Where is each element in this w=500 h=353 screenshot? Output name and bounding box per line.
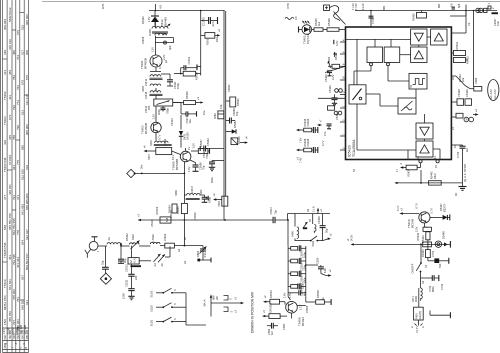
svg-text:A: A <box>421 326 425 328</box>
wire jog right rail <box>450 5 466 17</box>
note DRAWN IN POSITION MW <box>251 291 255 333</box>
resistor DR5510 <box>262 302 287 318</box>
capacitor C5064 75p <box>190 160 206 171</box>
decoupling row R5436 <box>296 118 323 143</box>
svg-text:S460: S460 <box>148 29 152 36</box>
transformer L5408 <box>148 22 174 55</box>
svg-text:T5404 548: T5404 548 <box>3 157 7 172</box>
svg-text:BZX79: BZX79 <box>443 204 447 212</box>
svg-text:L5417: L5417 <box>190 185 194 193</box>
resistor R5064 <box>168 204 178 213</box>
svg-text:4.5: 4.5 <box>294 16 298 20</box>
svg-text:A0: A0 <box>183 260 187 264</box>
svg-text:C5428: C5428 <box>457 89 461 97</box>
svg-text:0.7V: 0.7V <box>158 134 162 140</box>
svg-text:439: 439 <box>3 140 7 145</box>
svg-text:A3: A3 <box>306 208 310 212</box>
svg-text:A: A <box>410 326 414 328</box>
svg-text:523: 523 <box>20 110 24 115</box>
svg-text:960-969: 960-969 <box>3 19 7 30</box>
transistor T5403 <box>141 106 162 141</box>
transistor T5405 <box>172 148 191 170</box>
svg-text:1-LN: 1-LN <box>312 206 316 212</box>
svg-text:C2: C2 <box>467 22 471 26</box>
svg-text:C363: C363 <box>474 77 478 84</box>
svg-text:220: 220 <box>134 275 138 280</box>
resonator row C5503 <box>288 271 307 284</box>
svg-text:R5014: R5014 <box>195 72 199 80</box>
capacitor 46p drop <box>118 246 127 263</box>
svg-text:790: 790 <box>16 125 20 130</box>
transistor T5401 <box>140 54 166 71</box>
box D5084 <box>231 136 249 145</box>
svg-text:T5410: T5410 <box>3 279 7 288</box>
svg-text:348: 348 <box>3 50 7 55</box>
resonator ladder rails <box>288 246 306 297</box>
svg-text:10k3: 10k3 <box>433 173 437 179</box>
svg-text:C5012: C5012 <box>187 56 191 64</box>
resistor R5513 <box>263 290 285 305</box>
svg-text:5.7V: 5.7V <box>430 208 434 214</box>
svg-text:BF450B: BF450B <box>144 58 148 69</box>
svg-text:IC5420: IC5420 <box>348 145 352 157</box>
capacitor C5435 + ground <box>205 153 224 171</box>
phase block diagonal <box>349 85 366 104</box>
svg-text:13.2V: 13.2V <box>361 3 365 10</box>
IC internal wires <box>346 37 441 160</box>
resistor R5445 <box>421 244 434 260</box>
crystal hook <box>286 3 346 25</box>
svg-text:BC548B: BC548B <box>175 159 179 170</box>
svg-text:15p: 15p <box>219 104 223 109</box>
svg-text:C752: C752 <box>440 283 444 290</box>
varicap diode A3 <box>303 222 308 228</box>
diamond node FM <box>100 273 111 284</box>
svg-text:BA485: BA485 <box>164 17 168 26</box>
coil L5407 vertical <box>308 214 316 233</box>
amp block triangle down bottom <box>416 123 433 139</box>
svg-text:579: 579 <box>20 80 24 85</box>
varicap diodes A4 A0 <box>153 246 170 266</box>
svg-text:R5431: R5431 <box>455 41 459 49</box>
wire mute line <box>394 170 467 185</box>
wire mains stub <box>430 311 450 319</box>
svg-text:4n7: 4n7 <box>270 330 274 335</box>
svg-text:47u: 47u <box>323 131 327 136</box>
IC pin stubs left <box>335 39 346 150</box>
svg-text:515: 515 <box>20 25 24 30</box>
wire top right rail <box>354 3 497 27</box>
svg-text:544: 544 <box>20 240 24 245</box>
svg-text:C5413: C5413 <box>170 118 174 126</box>
box D363 <box>465 77 482 91</box>
svg-text:782: 782 <box>12 75 16 80</box>
svg-text:400S: 400S <box>11 328 15 334</box>
svg-text:3.3V: 3.3V <box>192 143 196 149</box>
svg-text:I-LN: I-LN <box>133 258 137 263</box>
svg-text:549 551: 549 551 <box>20 299 24 310</box>
svg-text:881: 881 <box>437 3 441 8</box>
svg-text:T5403: T5403 <box>3 116 7 125</box>
svg-text:C558: C558 <box>296 283 300 290</box>
wire supply line <box>346 234 450 245</box>
svg-text:500p: 500p <box>303 277 307 283</box>
svg-text:AA119: AA119 <box>237 136 241 144</box>
resonator row C5504 <box>288 283 307 296</box>
svg-text:5406: 5406 <box>291 231 295 237</box>
extra labels left chain <box>144 16 241 240</box>
svg-text:1V: 1V <box>187 147 191 150</box>
capacitor C559 6.8n <box>305 257 332 276</box>
svg-text:T5402: T5402 <box>3 91 7 100</box>
svg-text:791: 791 <box>12 195 16 200</box>
page scan edge left <box>0 0 2 353</box>
svg-text:D5447: D5447 <box>439 203 443 211</box>
svg-text:C5436: C5436 <box>306 118 310 126</box>
svg-text:K70: K70 <box>286 3 290 9</box>
capacitor C558 row5 <box>288 283 306 296</box>
svg-text:A4: A4 <box>153 263 157 267</box>
extra labels mid/right <box>331 3 471 172</box>
svg-text:A4: A4 <box>177 248 181 252</box>
diamond node 30n <box>127 164 185 178</box>
svg-text:U: U <box>19 347 23 349</box>
wire FM second tier <box>131 246 133 258</box>
resistor C5443 <box>423 223 431 231</box>
coil L5401 <box>107 237 130 247</box>
svg-text:560 905,906: 560 905,906 <box>25 193 29 210</box>
svg-text:S: S <box>230 311 234 313</box>
svg-text:S457: S457 <box>147 153 151 160</box>
decoupling row R5438 <box>295 138 318 163</box>
svg-text:6.7V: 6.7V <box>415 203 419 209</box>
trimmer label <box>168 45 172 50</box>
connector sockets top right <box>476 3 495 13</box>
svg-text:14.3V: 14.3V <box>350 234 354 241</box>
svg-text:C5433: C5433 <box>324 74 328 82</box>
svg-text:1500: 1500 <box>121 293 125 299</box>
resistor R5409 <box>173 91 204 105</box>
svg-text:S: S <box>173 289 177 291</box>
coil L471 <box>411 288 422 307</box>
svg-text:C5417: C5417 <box>269 206 273 214</box>
svg-text:671669: 671669 <box>8 155 12 165</box>
capacitor C753 <box>421 275 439 292</box>
svg-text:5501: 5501 <box>217 200 221 206</box>
svg-text:SK-A: SK-A <box>203 299 207 306</box>
svg-text:R5091: R5091 <box>236 98 240 106</box>
svg-text:C5438: C5438 <box>306 138 310 146</box>
svg-text:C5018: C5018 <box>150 219 154 227</box>
svg-text:R5402: R5402 <box>125 233 129 241</box>
resistor R5065 <box>176 203 187 245</box>
capacitor C5411 100p <box>161 74 180 89</box>
svg-text:DR1: DR1 <box>215 36 219 42</box>
page scan edge top <box>42 1 500 3</box>
sine ramp block <box>398 98 416 114</box>
mixer box <box>143 145 172 155</box>
svg-text:R5021: R5021 <box>206 37 210 45</box>
svg-text:17.2V: 17.2V <box>351 3 355 10</box>
svg-text:631: 631 <box>25 300 29 305</box>
fuse F410 <box>414 307 424 332</box>
resistor R5426 <box>323 18 346 32</box>
svg-text:0.2V: 0.2V <box>331 74 335 80</box>
svg-text:471: 471 <box>16 195 20 200</box>
svg-text:R5409: R5409 <box>185 91 189 99</box>
capacitor C563 <box>267 323 278 335</box>
capacitor C5434 <box>200 138 224 152</box>
amp block triangle down 1 <box>411 29 427 45</box>
svg-text:R5019: R5019 <box>169 210 173 218</box>
capacitor C5417 series <box>269 206 278 223</box>
svg-text:500S: 500S <box>15 328 19 334</box>
flip-flop block B <box>384 47 400 66</box>
svg-text:100p: 100p <box>176 83 180 89</box>
svg-text:1-54: 1-54 <box>2 329 6 335</box>
diode D431 AA119 <box>173 103 190 148</box>
svg-text:585: 585 <box>20 145 24 150</box>
wire top AM rail <box>149 4 225 11</box>
svg-text:1.5V: 1.5V <box>288 292 292 298</box>
switch SL5/1 <box>150 317 187 326</box>
bus wire +2 <box>137 213 289 221</box>
svg-text:150p: 150p <box>301 283 305 289</box>
svg-text:B: B <box>24 347 28 349</box>
svg-text:1k2: 1k2 <box>317 21 321 26</box>
svg-text:D893: D893 <box>196 250 200 257</box>
svg-text:R5440: R5440 <box>416 232 420 240</box>
svg-text:459: 459 <box>8 70 12 75</box>
svg-text:881: 881 <box>382 5 386 10</box>
svg-text:764: 764 <box>16 55 20 60</box>
svg-text:5431: 5431 <box>311 240 315 246</box>
extra table labels <box>2 39 29 345</box>
svg-text:10u: 10u <box>188 119 192 124</box>
svg-text:0.7V: 0.7V <box>158 63 162 69</box>
svg-text:F410: F410 <box>415 313 419 319</box>
svg-text:S1: S1 <box>424 264 428 268</box>
svg-text:S455: S455 <box>141 85 145 92</box>
resistor R5425 <box>312 18 323 32</box>
svg-text:5082: 5082 <box>213 113 217 119</box>
amp block triangle up bottom <box>416 141 433 157</box>
svg-text:A0: A0 <box>160 263 164 267</box>
capacitor C5088 15p <box>226 108 240 124</box>
svg-text:793 795: 793 795 <box>12 254 16 265</box>
switch SK-A <box>203 294 245 316</box>
svg-text:R5019: R5019 <box>155 206 159 214</box>
svg-text:L5411: L5411 <box>144 78 148 86</box>
svg-text:4.5: 4.5 <box>159 4 163 9</box>
svg-text:100-196: 100-196 <box>19 324 23 334</box>
svg-text:608: 608 <box>25 50 29 55</box>
flip-flop block A <box>367 47 383 66</box>
svg-text:R5445: R5445 <box>421 249 425 257</box>
svg-text:5682 B132: 5682 B132 <box>8 7 12 22</box>
svg-text:L5408: L5408 <box>141 36 145 44</box>
capacitor 32p <box>101 246 109 273</box>
svg-text:S2: S2 <box>421 280 425 284</box>
resistor R5067 collector <box>191 139 210 154</box>
coil L5417 <box>184 185 200 199</box>
resistor stack right of IC <box>451 41 469 64</box>
svg-text:AC~12V: AC~12V <box>489 89 493 99</box>
svg-text:477: 477 <box>3 195 7 200</box>
svg-text:R5437: R5437 <box>407 168 411 176</box>
IF transformer L5411 <box>144 72 163 87</box>
svg-text:C5456: C5456 <box>317 216 321 224</box>
svg-text:CQY24: CQY24 <box>306 34 310 44</box>
svg-text:300R: 300R <box>414 296 418 302</box>
svg-text:2.2V: 2.2V <box>162 54 166 60</box>
svg-text:BF494: BF494 <box>301 317 305 326</box>
svg-text:75p: 75p <box>274 210 278 215</box>
svg-text:D5432: D5432 <box>141 16 145 24</box>
connector oval AC-12V <box>488 80 499 101</box>
reference table grid lines <box>3 0 29 353</box>
svg-text:461-464: 461-464 <box>16 257 20 268</box>
resistor R5019 <box>155 206 171 223</box>
svg-text:BF450B: BF450B <box>144 123 148 134</box>
svg-text:30p: 30p <box>325 228 329 233</box>
svg-text:180p: 180p <box>208 197 212 203</box>
svg-text:DR5: DR5 <box>327 56 331 62</box>
svg-text:300p: 300p <box>157 109 161 115</box>
resistor R5508 output <box>297 290 331 306</box>
svg-text:55-96: 55-96 <box>7 327 11 334</box>
svg-text:75p: 75p <box>202 165 206 170</box>
svg-text:R5443: R5443 <box>430 171 434 179</box>
svg-text:C5429: C5429 <box>465 89 469 97</box>
svg-text:T5408 F5/8: T5408 F5/8 <box>3 242 7 258</box>
svg-text:C559: C559 <box>315 257 319 264</box>
svg-text:797: 797 <box>12 320 16 325</box>
svg-text:788: 788 <box>12 135 16 140</box>
svg-text:3.3n: 3.3n <box>203 252 207 258</box>
svg-text:1.6V: 1.6V <box>283 292 287 298</box>
svg-text:530: 530 <box>438 263 442 268</box>
svg-text:D5448: D5448 <box>442 231 446 239</box>
diode D5448 <box>442 231 448 247</box>
trimmer C5405 <box>196 246 211 263</box>
svg-text:680n: 680n <box>431 286 435 292</box>
svg-text:1.6A(T): 1.6A(T) <box>418 311 422 320</box>
svg-text:6.8n: 6.8n <box>323 267 327 273</box>
resistor chain pin6 <box>327 56 340 68</box>
svg-text:D1: D1 <box>454 192 458 196</box>
capacitor C5071 10u <box>181 103 197 124</box>
capacitor C1075 22n <box>201 11 218 27</box>
capacitor C5433 pin5 <box>328 85 338 105</box>
svg-text:C754: C754 <box>456 151 460 158</box>
svg-text:46p: 46p <box>123 258 127 263</box>
svg-text:460: 460 <box>199 189 203 194</box>
diode D5082 <box>226 129 236 133</box>
pin externals left of IC <box>318 40 346 146</box>
svg-text:509,504 567: 509,504 567 <box>25 253 29 270</box>
svg-text:641-656: 641-656 <box>20 204 24 215</box>
svg-text:9.1V: 9.1V <box>171 154 175 160</box>
svg-text:M: M <box>464 118 468 120</box>
resistor R5443 <box>421 232 430 245</box>
variable inductor L5402a <box>130 234 151 249</box>
wire switch bus <box>186 293 206 325</box>
extra labels bottom <box>96 233 444 330</box>
svg-text:611 615: 611 615 <box>25 94 29 105</box>
A.F. STOP label + ground <box>454 164 467 196</box>
resistor R5080 <box>226 97 240 107</box>
svg-text:LW: LW <box>215 296 219 300</box>
capacitor C5512 220 <box>125 264 139 289</box>
resistor R5435 below IC <box>399 156 439 177</box>
wire right rail down 2 <box>473 10 475 87</box>
svg-text:C5434: C5434 <box>202 150 206 158</box>
trimmer box L5410 <box>154 96 173 115</box>
svg-text:4.7V: 4.7V <box>321 140 325 146</box>
resistor R5082 <box>213 111 224 119</box>
wire bus corner down <box>287 219 289 246</box>
resistor R5434 pin diag <box>451 74 465 86</box>
svg-text:4.3V: 4.3V <box>335 40 339 46</box>
svg-text:15p: 15p <box>235 111 239 116</box>
svg-text:TCA4500A: TCA4500A <box>352 139 356 157</box>
svg-text:780p: 780p <box>166 108 170 114</box>
svg-text:5p6: 5p6 <box>457 3 461 8</box>
svg-text:5.3V: 5.3V <box>415 226 419 232</box>
svg-text:C1075: C1075 <box>202 17 206 26</box>
svg-text:K73: K73 <box>8 114 12 120</box>
svg-text:A.F. STOP: A.F. STOP <box>463 164 467 178</box>
svg-text:561 563: 561 563 <box>8 279 12 290</box>
switch SL5-4 <box>295 233 333 247</box>
svg-text:S460: S460 <box>174 189 178 196</box>
svg-text:L5506: L5506 <box>305 305 309 313</box>
svg-text:C751: C751 <box>431 250 435 257</box>
svg-text:413: 413 <box>3 70 7 75</box>
coil L5413 <box>149 139 172 146</box>
svg-text:SL5/2: SL5/2 <box>150 305 154 312</box>
pin21 boxes <box>451 89 471 106</box>
antenna <box>85 237 98 258</box>
coil L5406 vertical <box>291 214 299 242</box>
svg-text:N-TV: N-TV <box>415 326 419 333</box>
extra labels left chain 2 <box>141 16 206 220</box>
svg-text:R5432: R5432 <box>466 56 470 64</box>
svg-text:R5065: R5065 <box>176 206 180 214</box>
svg-text:F5/2: F5/2 <box>3 319 7 325</box>
svg-text:30n: 30n <box>140 164 144 169</box>
coil L5402 <box>150 234 164 246</box>
svg-text:455: 455 <box>147 105 151 110</box>
svg-text:5.6: 5.6 <box>450 3 454 7</box>
svg-text:10u: 10u <box>202 110 206 115</box>
capacitor C750 on stub <box>369 16 374 18</box>
wavy mark <box>285 16 298 20</box>
svg-text:SA57: SA57 <box>149 139 153 146</box>
svg-text:905 906: 905 906 <box>25 124 29 135</box>
svg-text:C560: C560 <box>282 323 286 330</box>
svg-text:(2): (2) <box>463 179 467 182</box>
svg-text:4u7: 4u7 <box>465 147 469 152</box>
resonator row C5502 <box>288 258 307 271</box>
svg-text:BC548: BC548 <box>411 218 415 228</box>
capacitor C5511 1500 + ground <box>121 279 134 300</box>
svg-text:C5434: C5434 <box>206 138 210 146</box>
svg-text:C5091: C5091 <box>227 84 231 92</box>
svg-text:3.3n: 3.3n <box>496 20 500 26</box>
svg-text:3p9: 3p9 <box>168 45 172 50</box>
